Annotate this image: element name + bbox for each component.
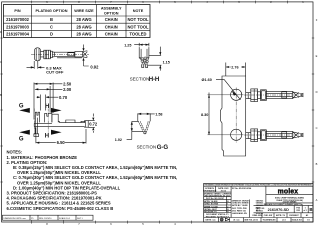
svg-text:INITIAL: 08/07: INITIAL: 08/07: [204, 208, 217, 211]
svg-text:2023/08/07: 2023/08/07: [289, 215, 298, 217]
dim 1.25: [134, 43, 149, 47]
notes text: [7, 150, 178, 211]
svg-text:G-G: G-G: [157, 144, 169, 151]
dim 0.72: [88, 114, 95, 133]
bottom-left mini table: [3, 215, 94, 220]
svg-text:DIMENSION UNITS: mm: DIMENSION UNITS: mm: [4, 218, 27, 220]
svg-text:WIRE SIZE: WIRE SIZE: [74, 9, 94, 13]
crimp block: [44, 50, 51, 59]
svg-text:NOT TOOL: NOT TOOL: [127, 17, 149, 22]
svg-text:28 AWG: 28 AWG: [76, 32, 91, 37]
svg-text:2.76: 2.76: [231, 65, 238, 69]
svg-text:DOC No: SD-216197: DOC No: SD-216197: [206, 198, 224, 200]
parts table: [4, 5, 151, 38]
svg-text:OPTION: OPTION: [104, 11, 119, 15]
svg-text:6.COSMETIC SPECIFICATION: PS-4: 6.COSMETIC SPECIFICATION: PS-45499-002 C…: [7, 206, 114, 211]
svg-text:H-H: H-H: [149, 76, 160, 83]
projection icons: [220, 218, 229, 221]
svg-text:TOOLED: TOOLED: [130, 32, 147, 37]
svg-text:DWN: MOK: DWN: MOK: [252, 215, 263, 217]
svg-text:C: C: [50, 24, 53, 29]
svg-text:INFORMATION: INFORMATION: [203, 189, 217, 192]
dim 1.58: [138, 113, 155, 121]
G/H labels: [19, 103, 49, 142]
body beam: [34, 123, 84, 127]
second box: [50, 51, 52, 58]
svg-text:of 1: of 1: [304, 210, 307, 212]
svg-text:ASSEMBLY: ASSEMBLY: [101, 7, 122, 11]
svg-text:APPR: YH.KIM: APPR: YH.KIM: [204, 200, 217, 203]
dim 8.30: [208, 93, 210, 135]
feet: [142, 64, 148, 67]
svg-text:0.72: 0.72: [89, 122, 98, 127]
wire blob: [141, 57, 148, 65]
svg-text:0.92: 0.92: [90, 65, 99, 70]
neck: [41, 52, 44, 57]
G arrow bottom: [19, 130, 30, 135]
right panel: [250, 186, 314, 217]
svg-text:2161970004: 2161970004: [6, 32, 29, 37]
svg-text:C: C: [316, 126, 318, 130]
svg-text:R23: R23: [296, 210, 299, 212]
svg-text:H: H: [45, 104, 49, 110]
svg-text:28 AWG: 28 AWG: [76, 24, 91, 29]
G section line: [33, 109, 35, 135]
svg-text:RELEASED TO PRODUCT: RELEASED TO PRODUCT: [206, 215, 230, 218]
section H-H: [134, 43, 161, 71]
dim 0.3 MAX: [27, 61, 45, 69]
wing 2: [45, 113, 52, 122]
micro text smudges: [203, 184, 312, 219]
svg-text:216197 SERIES: 216197 SERIES: [283, 201, 298, 203]
svg-text:SECTION: SECTION: [130, 77, 150, 82]
svg-text:CHAIN: CHAIN: [105, 17, 118, 22]
svg-text:2161970003: 2161970003: [6, 24, 29, 29]
svg-text:D: D: [0, 30, 2, 34]
svg-text:NOTE: NOTE: [133, 9, 144, 13]
svg-text:B: B: [316, 162, 318, 166]
right terminals: [244, 89, 305, 102]
molex logo: [268, 188, 313, 212]
wing 1: [35, 112, 39, 122]
tip body: [75, 52, 83, 57]
svg-text:/11/10: /11/10: [221, 190, 226, 192]
holes: [231, 89, 242, 100]
svg-text:1: 1: [227, 204, 228, 206]
svg-text:E: E: [316, 54, 318, 58]
svg-text:B: B: [309, 207, 312, 212]
svg-text:6.50: 6.50: [57, 140, 66, 145]
title block: [204, 183, 313, 222]
long beam: [54, 52, 82, 58]
profile view: [34, 83, 95, 144]
svg-text:1/1: 1/1: [307, 220, 310, 222]
svg-text:DOC PART: 001: DOC PART: 001: [232, 210, 246, 213]
svg-text:TOLERANCES: TOLERANCES: [263, 219, 277, 222]
svg-text:1.15: 1.15: [163, 60, 170, 64]
svg-text:B: B: [0, 93, 2, 97]
tip fork: [83, 51, 88, 58]
bottom rows: [204, 213, 313, 222]
svg-text:SGNL CRIMP TERMINAL 28AWG: SGNL CRIMP TERMINAL 28AWG: [275, 196, 305, 199]
svg-text:CHKD: KO.PAK: CHKD: KO.PAK: [204, 203, 218, 206]
svg-text:APPR: YS: APPR: YS: [276, 214, 286, 217]
dim 2.76: [226, 63, 246, 77]
svg-text:1.58: 1.58: [155, 112, 162, 116]
svg-text:Ø1.60: Ø1.60: [202, 78, 212, 82]
svg-text:CHAIN: CHAIN: [105, 32, 118, 37]
svg-text:A3: A3: [306, 214, 308, 217]
svg-text:SECTION: SECTION: [137, 144, 157, 149]
svg-text:EC No: SD-2023-0164: EC No: SD-2023-0164: [232, 187, 252, 190]
svg-text:molex: molex: [278, 188, 299, 195]
svg-text:28 AWG: 28 AWG: [76, 17, 91, 22]
tip box: [85, 121, 89, 128]
dim 1.02: [127, 121, 144, 139]
svg-text:SCALE 10:1: SCALE 10:1: [59, 217, 71, 220]
svg-text:2.50: 2.50: [63, 81, 72, 86]
right view: carrier strip: [208, 63, 246, 157]
svg-text:B: B: [50, 17, 53, 22]
svg-text:D: D: [50, 32, 53, 37]
leader dia 1.60: [216, 79, 241, 100]
dim 2.50: [34, 83, 62, 120]
svg-text:8.30: 8.30: [201, 113, 208, 117]
svg-text:2: 2: [227, 206, 228, 208]
top view terminal: [27, 45, 90, 69]
svg-text:A: A: [316, 198, 318, 202]
dim 0.92: [84, 45, 89, 67]
svg-text:1.02: 1.02: [115, 138, 122, 142]
step box: [52, 114, 60, 122]
carrier tab: [34, 118, 39, 137]
dim 6.50: [36, 128, 86, 144]
centerline: [31, 53, 89, 55]
svg-text:SD-2: SD-2: [256, 210, 260, 212]
svg-text:REV DESCRIPTION: B1 2023: REV DESCRIPTION: B1 2023: [205, 195, 231, 197]
svg-text:NOT TOOL: NOT TOOL: [127, 24, 149, 29]
dim 1.15: [148, 47, 162, 71]
svg-text:CHK: KW: CHK: KW: [264, 215, 273, 217]
svg-text:2161970002: 2161970002: [6, 17, 29, 22]
svg-text:SCALE 20:1: SCALE 20:1: [292, 219, 303, 222]
svg-text:H: H: [45, 134, 49, 140]
dim 0.70: [37, 95, 59, 111]
svg-text:P/N: P/N: [14, 9, 21, 13]
svg-text:G: G: [19, 136, 24, 142]
H arrow bottom: [51, 130, 62, 135]
svg-text:G: G: [19, 103, 24, 109]
section G-G: [127, 113, 155, 140]
hump on beam: [66, 120, 85, 123]
svg-text:1.25: 1.25: [124, 43, 131, 47]
svg-text:UNITS: mm: UNITS: mm: [205, 220, 216, 222]
H section line: [47, 109, 49, 135]
carrier tab: [35, 48, 41, 61]
svg-text:D: D: [316, 90, 318, 94]
svg-text:2.00: 2.00: [63, 87, 72, 92]
dim 2.00: [35, 86, 63, 113]
G arrow top (left-pointing): [19, 108, 30, 113]
svg-text:C: C: [0, 60, 2, 64]
svg-text:DOC TYPE: PSD: DOC TYPE: PSD: [232, 208, 247, 210]
svg-text:LANGUAGE: EN: LANGUAGE: EN: [232, 212, 247, 215]
left panel: [204, 186, 231, 217]
svg-text:RELEASE DOCUMENT NUMBER SHEET: RELEASE DOCUMENT NUMBER SHEET No: [264, 203, 304, 206]
svg-text:CUT OFF: CUT OFF: [46, 70, 64, 75]
svg-text:GEN TOL ±0.05: GEN TOL ±0.05: [244, 220, 258, 222]
svg-text:±0.1: ±0.1: [282, 220, 286, 222]
H arrow top (right-pointing): [51, 108, 62, 113]
svg-text:∅: mm: ∅: mm: [233, 219, 239, 222]
svg-text:2161970-SD: 2161970-SD: [268, 208, 290, 212]
svg-text:CHAIN: CHAIN: [105, 24, 118, 29]
svg-text:DRWN: SJ.LEE: DRWN: SJ.LEE: [204, 206, 218, 208]
svg-text:APPR BY: YSLEE: APPR BY: YSLEE: [232, 204, 248, 207]
svg-text:REV: 2023/10: REV: 2023/10: [39, 218, 52, 220]
svg-text:SHT 1: SHT 1: [77, 218, 84, 220]
svg-text:0.70: 0.70: [59, 95, 68, 100]
svg-text:PLATING OPTION: PLATING OPTION: [36, 9, 68, 13]
centerlines: [235, 88, 237, 143]
